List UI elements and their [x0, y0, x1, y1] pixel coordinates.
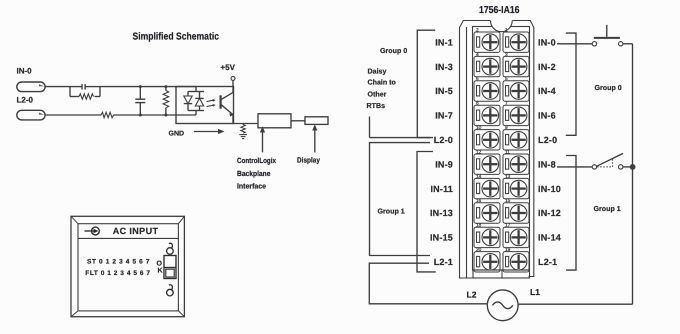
svg-text:RTBs: RTBs: [367, 102, 386, 110]
svg-text:FLT 0 1 2 3 4 5 6 7: FLT 0 1 2 3 4 5 6 7: [85, 270, 150, 277]
keying screw top: [167, 243, 174, 254]
label ControlLogix Backplane Interface: [237, 156, 277, 191]
limit switch SW1: [592, 153, 623, 169]
wire L2-0 daisy: [370, 137, 431, 139]
junction dots R2: [164, 85, 167, 116]
svg-text:IN-14: IN-14: [538, 233, 561, 243]
opto LED rails: [188, 87, 204, 115]
OK indicator: [157, 256, 177, 279]
svg-text:10: 10: [476, 125, 482, 131]
svg-text:IN-9: IN-9: [435, 159, 453, 169]
svg-text:Chain to: Chain to: [368, 79, 397, 87]
daisy chain stub to other RTBs: [369, 117, 371, 138]
wire IN-0 to switch: [557, 43, 592, 45]
wire top rail to opto: [100, 86, 196, 88]
terminal row 3: pins 6/5: [474, 76, 529, 101]
svg-text:Group 1: Group 1: [594, 205, 621, 213]
faceplate title bar: [78, 237, 178, 239]
svg-text:+5V: +5V: [221, 63, 236, 72]
svg-text:Daisy: Daisy: [368, 67, 387, 75]
svg-text:ControlLogix: ControlLogix: [237, 156, 277, 165]
svg-text:15: 15: [505, 198, 511, 204]
svg-text:18: 18: [476, 223, 482, 229]
node +5V: [221, 63, 236, 92]
svg-text:7: 7: [505, 101, 508, 107]
wire L2-0 bottom rail: [45, 114, 196, 116]
terminal IN-0: [17, 82, 45, 92]
junction dots C2: [139, 85, 142, 116]
capacitor C1 (snubber): [82, 84, 85, 90]
svg-text:Interface: Interface: [237, 182, 266, 191]
diode D1 (LED down): [184, 92, 192, 111]
bracket group 0 right: [566, 33, 576, 135]
phototransistor Q1: [221, 92, 234, 116]
svg-text:16: 16: [476, 198, 482, 204]
svg-text:IN-7: IN-7: [435, 111, 453, 121]
capacitor C2: [135, 87, 145, 115]
svg-text:IN-12: IN-12: [538, 208, 561, 218]
svg-text:1: 1: [505, 27, 508, 33]
svg-text:17: 17: [505, 223, 511, 229]
svg-text:IN-6: IN-6: [538, 111, 556, 121]
wire emitter to backplane: [233, 115, 258, 124]
terminal row 10: pins 20/19: [474, 247, 529, 272]
wire IN-8 to switch: [557, 166, 592, 168]
svg-text:Other: Other: [368, 90, 387, 98]
left terminal labels: [430, 37, 453, 267]
svg-text:13: 13: [505, 174, 511, 180]
AC source V1: [487, 290, 518, 321]
svg-text:L2-0: L2-0: [17, 96, 34, 105]
wire to display: [291, 120, 305, 122]
keying screw bottom: [167, 285, 174, 296]
svg-text:19: 19: [505, 247, 511, 253]
display box: [305, 117, 328, 125]
terminal L2-0: [17, 110, 45, 120]
svg-text:Group 0: Group 0: [595, 84, 622, 92]
svg-text:5: 5: [505, 76, 508, 82]
svg-text:Group 0: Group 0: [380, 47, 407, 55]
svg-text:12: 12: [476, 149, 482, 155]
svg-text:Group 1: Group 1: [378, 207, 405, 215]
svg-text:8: 8: [476, 101, 479, 107]
svg-text:6: 6: [476, 76, 479, 82]
svg-text:3: 3: [505, 52, 508, 58]
terminal row 1: pins 2/1: [474, 27, 529, 52]
svg-text:GND: GND: [169, 130, 185, 137]
terminal row 2: pins 4/3: [474, 52, 529, 77]
wire L1 bus: [632, 44, 634, 304]
bracket group 1 left: [417, 152, 436, 272]
junction dot on L1 bus: [630, 164, 636, 170]
module faceplate frame: [71, 216, 184, 316]
svg-text:9: 9: [505, 125, 508, 131]
wire switch SW1 to bus: [623, 166, 633, 168]
svg-text:L2: L2: [467, 290, 477, 300]
svg-text:IN-4: IN-4: [538, 86, 556, 96]
svg-text:L2-1: L2-1: [538, 257, 557, 267]
ControlLogix backplane interface box: [258, 114, 291, 128]
resistor R3 (series input): [101, 112, 114, 117]
svg-text:4: 4: [476, 52, 479, 58]
svg-text:1756-IA16: 1756-IA16: [479, 5, 520, 16]
terminal row 6: pins 12/11: [474, 149, 529, 174]
bracket group 0 left: [417, 30, 435, 137]
svg-text:IN-5: IN-5: [435, 86, 453, 96]
svg-text:IN-10: IN-10: [538, 184, 561, 194]
svg-text:Backplane: Backplane: [237, 169, 271, 178]
svg-text:AC INPUT: AC INPUT: [113, 226, 159, 236]
RTB body: [473, 27, 530, 279]
arrow to display box: [312, 124, 317, 152]
terminal row 4: pins 8/7: [474, 101, 529, 126]
terminal row 5: pins 10/9: [474, 125, 529, 150]
svg-text:Display: Display: [297, 156, 321, 165]
snubber loop wires: [70, 87, 100, 97]
light arrows: [207, 99, 216, 107]
pushbutton switch SW0: [592, 25, 623, 46]
label Daisy Chain to Other RTBs: [367, 67, 397, 110]
svg-text:L1: L1: [530, 287, 540, 297]
svg-text:IN-8: IN-8: [538, 159, 556, 169]
right terminal labels: [538, 37, 561, 267]
svg-text:IN-2: IN-2: [538, 62, 556, 72]
wire daisy L2-0 to L2-1: [370, 143, 431, 256]
optocoupler U1 box: [176, 87, 234, 124]
svg-text:IN-0: IN-0: [17, 66, 33, 75]
svg-text:L2-1: L2-1: [434, 257, 453, 267]
input icon: [85, 227, 100, 235]
arrow to backplane box: [260, 126, 265, 152]
ground symbol: [239, 135, 247, 139]
svg-text:14: 14: [476, 174, 482, 180]
wire L2-1 to AC source L2: [369, 263, 487, 304]
svg-text:11: 11: [505, 149, 510, 155]
svg-text:L2-0: L2-0: [434, 135, 453, 145]
terminal row 8: pins 16/15: [474, 198, 529, 223]
svg-text:2: 2: [476, 27, 479, 33]
GND label with arrow: [169, 129, 225, 138]
svg-text:Simplified Schematic: Simplified Schematic: [133, 32, 220, 43]
wire IN-0 to snubber: [45, 86, 70, 88]
wire switch SW0 to bus: [623, 43, 633, 45]
svg-text:O: O: [157, 260, 163, 267]
RTB keying notch: [491, 21, 513, 32]
svg-text:L2-0: L2-0: [538, 135, 557, 145]
bracket group 1 right: [566, 156, 576, 271]
terminal row 9: pins 18/17: [474, 223, 529, 248]
module casing: [460, 21, 534, 279]
svg-text:IN-13: IN-13: [430, 208, 453, 218]
svg-text:IN-1: IN-1: [435, 37, 453, 47]
diode D2 (LED up): [195, 92, 203, 111]
svg-text:IN-3: IN-3: [435, 62, 453, 72]
resistor R2 (bleed): [163, 87, 169, 115]
svg-text:20: 20: [476, 247, 482, 253]
resistor R1 (snubber): [79, 94, 94, 99]
wire AC source to bus bottom: [518, 303, 633, 305]
svg-text:IN-11: IN-11: [430, 184, 453, 194]
svg-text:IN-0: IN-0: [538, 37, 556, 47]
svg-text:K: K: [158, 268, 163, 275]
resistor R4 pulldown: [241, 124, 246, 134]
svg-text:ST 0 1 2 3 4 5 6 7: ST 0 1 2 3 4 5 6 7: [87, 259, 150, 266]
svg-text:IN-15: IN-15: [430, 233, 453, 243]
terminal row 7: pins 14/13: [474, 174, 529, 199]
